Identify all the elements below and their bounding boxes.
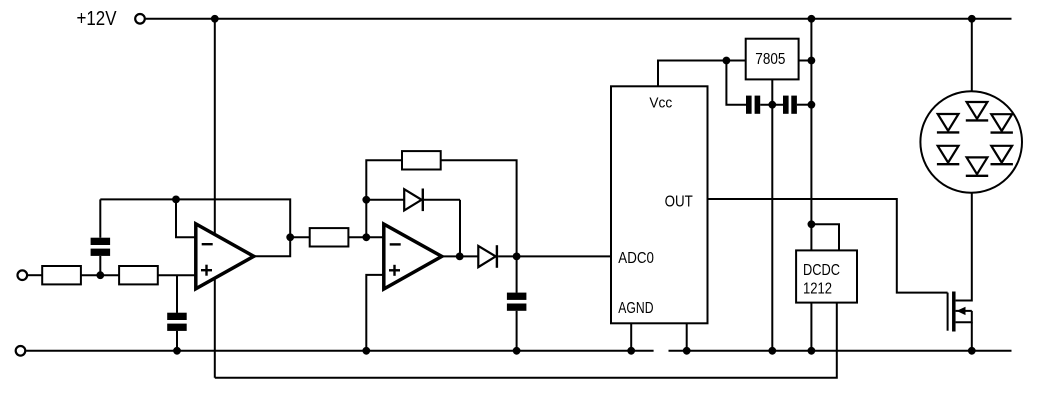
op-amp U1	[196, 224, 254, 289]
junction source ground	[968, 347, 976, 355]
transistor Q1 drain	[956, 193, 972, 301]
capacitor C3	[507, 256, 527, 350]
pin DGND	[686, 323, 688, 351]
resistor R4	[402, 151, 441, 169]
LED D6	[937, 146, 959, 164]
svg-text:OUT: OUT	[665, 193, 693, 210]
wire +12V bottom feed rail	[215, 303, 837, 378]
LED D8	[966, 157, 988, 175]
junction U1 output node	[286, 233, 294, 241]
op-amp U2	[384, 224, 442, 289]
wire to ADC0	[498, 255, 611, 257]
wire R2 to U1 non-inverting input	[158, 274, 196, 276]
wire OUT to gate	[708, 199, 948, 293]
wire U1 output	[254, 237, 290, 256]
diode D2	[478, 245, 497, 268]
junction feedback tap	[172, 196, 180, 204]
wire Vcc to 7805	[658, 61, 746, 87]
junction U2 plus ground	[362, 347, 370, 355]
wire U1 inverting input	[176, 199, 196, 237]
svg-text:Vcc: Vcc	[649, 94, 672, 111]
capacitor C1	[91, 199, 111, 275]
terminal +12V	[135, 14, 145, 24]
LED D7	[991, 146, 1013, 164]
capacitor C5	[783, 96, 811, 114]
LED D3	[966, 102, 988, 120]
junction bypass ground	[768, 347, 776, 355]
junction bypass right	[808, 101, 816, 109]
wire U2 output	[442, 255, 479, 257]
svg-text:7805: 7805	[755, 51, 785, 68]
resistor R3	[310, 228, 349, 246]
wire 7805 ground pin	[771, 79, 773, 104]
junction U2 output node	[456, 253, 464, 261]
wire R3 to U2	[348, 236, 366, 238]
wire DCDC ground pin	[810, 303, 812, 351]
svg-text:1212: 1212	[803, 280, 832, 297]
wire R1 to R2	[81, 274, 119, 276]
wire U1 feedback top	[100, 199, 290, 237]
junction node A	[96, 271, 104, 279]
wire to R3	[290, 236, 310, 238]
junction AGND	[627, 347, 635, 355]
svg-text:AGND: AGND	[618, 300, 653, 317]
wire U2 inverting input	[366, 236, 385, 238]
junction Vcc bypass tap	[723, 57, 731, 65]
wire to D1	[366, 199, 404, 201]
IC U3 microcontroller	[611, 86, 708, 323]
wire LED anode	[971, 19, 973, 91]
wire bypass row left drop	[726, 61, 746, 105]
junction DCDC ground	[808, 347, 816, 355]
pin AGND	[630, 323, 632, 351]
terminal ground	[16, 346, 26, 356]
diode D1	[404, 189, 460, 257]
svg-text:+12V: +12V	[77, 7, 117, 30]
LED D5	[991, 114, 1013, 132]
junction DGND	[683, 347, 691, 355]
transistor Q1 gate	[947, 293, 949, 331]
junction top rail A	[211, 15, 219, 23]
transistor Q1 source	[956, 311, 972, 322]
junction top rail B	[808, 15, 816, 23]
wire DCDC second input pin	[811, 224, 839, 250]
LED cluster circle	[920, 91, 1022, 193]
wire input	[28, 274, 42, 276]
junction bypass center	[768, 101, 776, 109]
wire +12V DCDC drop	[810, 19, 812, 251]
regulator 7805	[746, 39, 799, 80]
junction U2 inverting node	[362, 233, 370, 241]
junction DCDC tap	[808, 220, 816, 228]
wire source to ground	[971, 322, 973, 351]
capacitor C4	[746, 96, 783, 114]
wire U2 feedback right riser	[441, 160, 517, 256]
junction 7805 input	[808, 57, 816, 65]
terminal signal input	[18, 270, 28, 280]
DCDC converter module	[796, 250, 857, 302]
wire bypass ground drop	[771, 105, 773, 351]
junction top rail C	[968, 15, 976, 23]
resistor R2	[119, 266, 158, 284]
transistor Q1 channel	[952, 292, 956, 332]
svg-text:DCDC: DCDC	[803, 262, 840, 279]
LED D4	[937, 114, 959, 132]
wire U2 non-inverting input	[366, 275, 385, 351]
wire ground rail left	[26, 350, 654, 352]
wire +12V left drop	[214, 19, 216, 378]
resistor R1	[42, 266, 81, 284]
junction C2 ground	[173, 347, 181, 355]
junction C3 ground	[513, 347, 521, 355]
junction D1 tap	[362, 196, 370, 204]
wire +12V top rail	[146, 18, 1012, 20]
wire ground rail right	[669, 350, 1012, 352]
junction node X	[513, 253, 521, 261]
capacitor C2	[167, 275, 187, 351]
wire U2 feedback left riser	[366, 160, 402, 237]
transistor Q1 body arrow	[956, 307, 972, 315]
wire 7805 input	[799, 60, 812, 62]
svg-text:ADC0: ADC0	[618, 250, 654, 267]
